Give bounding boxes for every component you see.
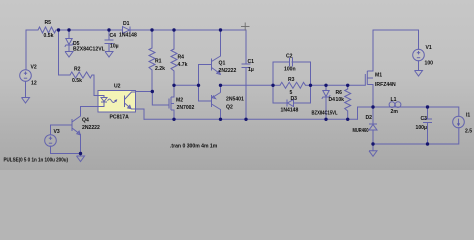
resistor R1 [149, 48, 155, 70]
svg-text:D4: D4 [329, 97, 336, 103]
svg-text:2N2222: 2N2222 [82, 125, 100, 131]
svg-text:C1: C1 [248, 59, 255, 65]
wire D2 cathode lead [372, 107, 374, 124]
current source I1 [453, 116, 465, 128]
junction rail R6 [346, 118, 349, 121]
wire D3 cathode lead [273, 102, 287, 104]
junction emitters output [219, 84, 222, 87]
wire C4 bottom lead to ground [108, 44, 110, 52]
voltage source V1 [413, 49, 425, 61]
svg-text:V2: V2 [31, 65, 37, 71]
wire M1 source to switch node [372, 85, 374, 108]
wire Q1/Q2 base tie vertical [198, 65, 200, 102]
wire ground stub under Q4 emitter node [80, 154, 82, 157]
junction node B [172, 84, 175, 87]
svg-text:PC817A: PC817A [110, 115, 130, 121]
junction top rail Q1 collector [219, 28, 222, 31]
wire D5 bottom lead to ground [68, 46, 70, 52]
svg-text:4.7k: 4.7k [178, 62, 188, 68]
wire node A: opto collector to R1 bottom junction [136, 91, 153, 93]
svg-text:V1: V1 [426, 45, 432, 51]
mosfet M1 nmos [365, 71, 373, 85]
wire top rail: R5 right lead to node R2-branch [56, 29, 59, 31]
junction top rail R4 [172, 28, 175, 31]
svg-text:D2: D2 [366, 115, 373, 121]
svg-text:Q2: Q2 [226, 105, 233, 111]
svg-text:U2: U2 [114, 84, 121, 90]
wire Q1 collector to top rail [220, 30, 222, 56]
wire V3 bottom lead to Q4 emitter node [51, 146, 81, 153]
svg-text:V3: V3 [54, 129, 60, 135]
wire D3 anode lead [294, 102, 311, 104]
wire top rail right section: M1 drain corner to V1 corner [373, 30, 419, 71]
wire opto cathode to Q4 collector [81, 107, 99, 115]
capacitor C3 [423, 119, 432, 123]
wire C3 top lead [427, 107, 429, 119]
junction top rail R1 [150, 28, 153, 31]
svg-text:2N5401: 2N5401 [226, 97, 244, 103]
wire L1 right to C3 node to I1 corner [389, 107, 459, 116]
wire R3 right lead [306, 84, 311, 86]
wire RC block left vertical [272, 62, 274, 103]
wire D2 anode lead to output ground rail [372, 130, 374, 144]
junction D4 gate net [324, 84, 327, 87]
junction C3 top [426, 105, 429, 108]
junction node A [151, 90, 154, 93]
svg-text:1N4148: 1N4148 [281, 108, 299, 114]
junction rail D4 [324, 118, 327, 121]
resistor R5 [38, 27, 56, 33]
diode D2 [369, 124, 377, 130]
wire C4 top lead [108, 30, 110, 40]
ground under D5 [65, 52, 73, 58]
svg-text:1µ: 1µ [248, 67, 254, 73]
svg-text:R3: R3 [288, 77, 295, 83]
mouse crosshair cursor [241, 23, 250, 31]
wire V1 bottom lead to ground [418, 61, 420, 71]
wire R1 top lead [151, 30, 153, 48]
ground under V1 [415, 71, 423, 77]
wire node B: R4/M2-drain junction to base rail of Q1 Q2 [174, 84, 199, 86]
svg-text:1N4148: 1N4148 [119, 33, 137, 39]
wire driver output: emitters junction to RC block left node [221, 84, 274, 86]
svg-text:R2: R2 [74, 67, 81, 73]
U2 internal LED [98, 96, 104, 98]
svg-text:PULSE(0 5 0 1n 1n 100u 200u): PULSE(0 5 0 1n 1n 100u 200u) [4, 158, 69, 164]
capacitor C2 [290, 58, 293, 67]
mosfet M2 nmos [169, 85, 174, 110]
svg-text:2N7002: 2N7002 [177, 105, 195, 111]
wire top rail: C4 node to D1 anode [109, 29, 123, 31]
svg-text:.tran 0 300m 4m 1m: .tran 0 300m 4m 1m [170, 144, 218, 150]
wire C1 bottom lead to rail [245, 68, 247, 119]
zener diode D4 [322, 91, 330, 99]
opto-coupler U2 box [98, 91, 136, 113]
wire M2 source to rail [173, 110, 175, 119]
transistor Q2 pnp [199, 85, 221, 109]
junction output ground D2 [371, 142, 374, 145]
wire V2 to ground [25, 81, 27, 97]
wire R4 bottom lead to node B [173, 71, 175, 85]
wire D4 bottom lead to rail [325, 97, 327, 120]
capacitor C1 [242, 64, 251, 68]
resistor R3 [280, 82, 306, 88]
ground under C4 [105, 52, 113, 58]
transistor Q1 npn [199, 56, 221, 74]
transistor Q4 npn [72, 107, 81, 142]
svg-text:Q4: Q4 [82, 118, 89, 124]
wire driver common rail riser to M1 source node [358, 107, 374, 119]
wire node A down to M2 gate lead [152, 92, 169, 106]
junction rail M2 source [172, 118, 175, 121]
ground under Q4 emitter node [77, 156, 85, 162]
wire D4 top lead [325, 85, 327, 90]
wire C3 bottom lead [427, 123, 429, 145]
junction top rail R2 branch [57, 28, 60, 31]
svg-text:12: 12 [31, 81, 37, 87]
inductor L1 [389, 102, 401, 108]
wire top rail: D5 node to C4 node [69, 29, 109, 31]
wire R4 top lead [173, 30, 175, 49]
diode D1 [123, 27, 131, 34]
wire Q2 collector to rail [220, 110, 222, 120]
junction base tie [197, 84, 200, 87]
wire C2 left lead [273, 61, 289, 63]
junction rail C1 [244, 118, 247, 121]
wire gate net: block right node to D4 node to R6 node to M1 gate [311, 84, 366, 86]
wire switch node to L1 left [373, 106, 389, 108]
svg-text:Q1: Q1 [219, 61, 226, 67]
junction R6 gate net [346, 84, 349, 87]
junction block left [271, 84, 274, 87]
svg-text:0.5k: 0.5k [72, 78, 82, 84]
wire V3 top lead to Q4 base [51, 125, 73, 135]
wire R1 bottom lead to node A [151, 70, 153, 92]
wire opto emitter down to driver common rail [136, 109, 145, 119]
svg-text:M1: M1 [375, 73, 382, 79]
resistor R6 [345, 89, 351, 111]
svg-text:10µ: 10µ [110, 44, 119, 50]
svg-text:L1: L1 [391, 97, 397, 103]
wire R2 left lead [59, 74, 71, 76]
wire top rail: R2-branch node to D5 node [59, 29, 70, 31]
wire output ground rail [373, 128, 459, 144]
junction output ground C3 [426, 142, 429, 145]
wire R6 top lead [347, 85, 349, 89]
zener diode D5 [65, 39, 73, 47]
svg-text:R6: R6 [336, 90, 343, 96]
ground under V2 [22, 98, 30, 104]
svg-text:I1: I1 [466, 113, 470, 119]
svg-text:C3: C3 [421, 116, 428, 122]
U2 internal light arrow [108, 99, 116, 102]
wire R6 bottom lead to rail [347, 111, 349, 119]
wire R3 left lead [273, 84, 280, 86]
wire ground stub under D2 rail node [372, 144, 374, 151]
wire Q4 emitter to node [80, 141, 82, 154]
svg-text:R4: R4 [178, 55, 185, 61]
svg-text:100: 100 [425, 61, 434, 67]
svg-text:2.2k: 2.2k [155, 66, 165, 72]
svg-text:BZX84C12VL: BZX84C12VL [73, 47, 105, 53]
svg-text:0.5k: 0.5k [44, 33, 54, 39]
wire R2 right lead to opto anode pin [92, 75, 98, 96]
wire C2 right lead [292, 61, 311, 63]
svg-text:R5: R5 [45, 20, 52, 26]
svg-text:2m: 2m [391, 109, 399, 115]
voltage source V2 [20, 70, 32, 82]
svg-text:R1: R1 [155, 59, 162, 65]
svg-text:BZX84C15VL: BZX84C15VL [312, 111, 338, 117]
svg-text:C2: C2 [286, 54, 293, 60]
svg-text:10k: 10k [336, 97, 345, 103]
wire R2 branch vertical from top rail [58, 30, 60, 75]
wire top rail: D1 cathode to R1 node to R4 node to Q1 collector node to C1 corner [131, 29, 247, 31]
wire 12V top rail: V2 corner to R5 [26, 30, 38, 70]
wire C1 top lead from rail corner [245, 30, 247, 64]
resistor R2 [70, 72, 92, 78]
capacitor C4 [105, 40, 114, 44]
svg-text:C4: C4 [110, 33, 117, 39]
junction top rail C4 [107, 28, 110, 31]
U2 internal phototransistor [124, 96, 126, 108]
wire RC block right vertical [310, 62, 312, 103]
junction rail Q2 collector [219, 118, 222, 121]
junction Q4 emitter ground [79, 152, 82, 155]
svg-text:2N2222: 2N2222 [219, 68, 237, 74]
svg-text:D3: D3 [291, 96, 298, 102]
svg-text:2.5: 2.5 [465, 129, 472, 135]
svg-text:100n: 100n [284, 67, 296, 73]
junction switch node [371, 105, 374, 108]
svg-text:100µ: 100µ [416, 125, 427, 131]
diode D3 [287, 100, 294, 107]
wire D5 top lead [68, 30, 70, 39]
wire driver common rail [144, 118, 358, 120]
resistor R4 [171, 49, 177, 71]
ground under D2 node [369, 151, 377, 157]
junction block right [309, 84, 312, 87]
svg-text:D1: D1 [123, 21, 130, 27]
svg-text:MUR460: MUR460 [353, 128, 369, 134]
svg-text:IRFZ44N: IRFZ44N [375, 82, 396, 88]
voltage source V3 pulse [45, 135, 57, 147]
junction top rail D5 [67, 28, 70, 31]
svg-text:M2: M2 [176, 98, 183, 104]
